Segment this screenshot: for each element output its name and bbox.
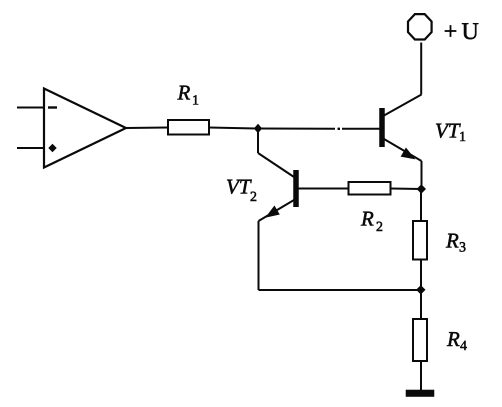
resistor R2 — [349, 182, 391, 195]
wire: node B to R3 — [420, 189, 422, 221]
wire: R3 to node C — [420, 260, 422, 290]
label +U — [445, 23, 478, 39]
wire: VT2 emitter to node C — [259, 289, 421, 291]
resistor R1 — [168, 120, 209, 135]
node A — [255, 125, 262, 133]
wire: R4 to ground — [420, 361, 422, 391]
wire: node C to R4 — [420, 290, 422, 319]
label R4 — [447, 332, 467, 350]
wire: VT1 emitter to node B — [421, 161, 423, 189]
wire: non-inverting input — [17, 147, 44, 149]
transistor VT1 — [382, 95, 422, 162]
wire: R1 to node A — [209, 128, 257, 129]
wire: node A to VT1 base — [258, 128, 380, 130]
wire: VT2 emitter down — [258, 221, 260, 290]
resistor R3 — [413, 221, 427, 260]
label VT2 — [227, 180, 256, 201]
label VT1 — [436, 124, 465, 141]
transistor VT2 — [258, 153, 296, 221]
node C — [417, 286, 425, 294]
wire: inverting input — [17, 107, 44, 109]
wire: VT1 collector to +U — [420, 43, 422, 95]
wire: R2 to VT2 base — [299, 188, 349, 190]
label R1 — [177, 86, 198, 105]
resistor R4 — [413, 319, 427, 361]
label R2 — [361, 212, 382, 231]
node B — [417, 185, 425, 193]
wire: node B to R2 — [391, 188, 422, 191]
label R3 — [446, 234, 466, 252]
power terminal +U — [408, 14, 432, 39]
wire: node A to VT2 collector — [257, 129, 259, 154]
op-amp U1 — [44, 89, 126, 168]
wire: op-amp output to R1 — [126, 127, 168, 130]
ground — [406, 390, 434, 397]
